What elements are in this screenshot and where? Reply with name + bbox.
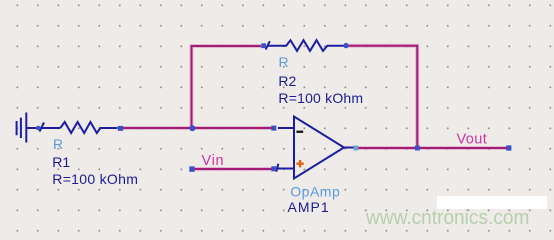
svg-text:R: R: [53, 136, 63, 152]
wire halos (soft JPEG-like glow): [120, 46, 509, 169]
node square: op-amp output: [354, 146, 359, 151]
wire: input net from R1 to inverting input: [120, 127, 274, 129]
node square: plus input wire end: [271, 166, 276, 171]
wire: feedback left vertical + top horizontal to R2: [192, 46, 262, 128]
ground: [17, 113, 27, 143]
node square: inverting input wire end: [271, 126, 276, 131]
resistor R2: [266, 40, 346, 51]
junction input/feedback: [189, 125, 195, 131]
resistor R1: [26, 122, 117, 133]
wire: Vin net: [192, 168, 274, 170]
wire: R2 output to right vertical down to output net: [346, 46, 417, 148]
svg-text:Vout: Vout: [457, 131, 488, 147]
svg-text:www.cntronics.com: www.cntronics.com: [365, 207, 529, 230]
node square: R1 pin 2 wire end: [118, 126, 123, 131]
op-amp input/output pin leads: [276, 128, 356, 172]
minus sign inverting input: [296, 131, 303, 133]
svg-text:R: R: [279, 54, 289, 70]
wire: Vout net: [357, 147, 509, 149]
white patch: [437, 196, 547, 209]
svg-text:R1: R1: [52, 154, 70, 170]
svg-text:R2: R2: [278, 73, 296, 89]
node: R1 pin 1 marker: [36, 126, 41, 131]
node square: R2 pin 1 wire end: [261, 43, 266, 48]
svg-text:R=100 kOhm: R=100 kOhm: [52, 171, 138, 187]
junction output/feedback: [415, 146, 420, 151]
svg-text:R=100 kOhm: R=100 kOhm: [278, 90, 363, 106]
op-amp U1: [294, 117, 344, 179]
svg-text:Vin: Vin: [202, 153, 225, 169]
svg-text:AMP1: AMP1: [288, 199, 330, 215]
svg-text:OpAmp: OpAmp: [290, 183, 340, 199]
node: R2 pin 2 marker: [343, 43, 348, 48]
node square: Vout end: [506, 145, 511, 150]
node square: Vin left end: [189, 166, 194, 171]
plus sign non-inverting input: [296, 160, 303, 167]
